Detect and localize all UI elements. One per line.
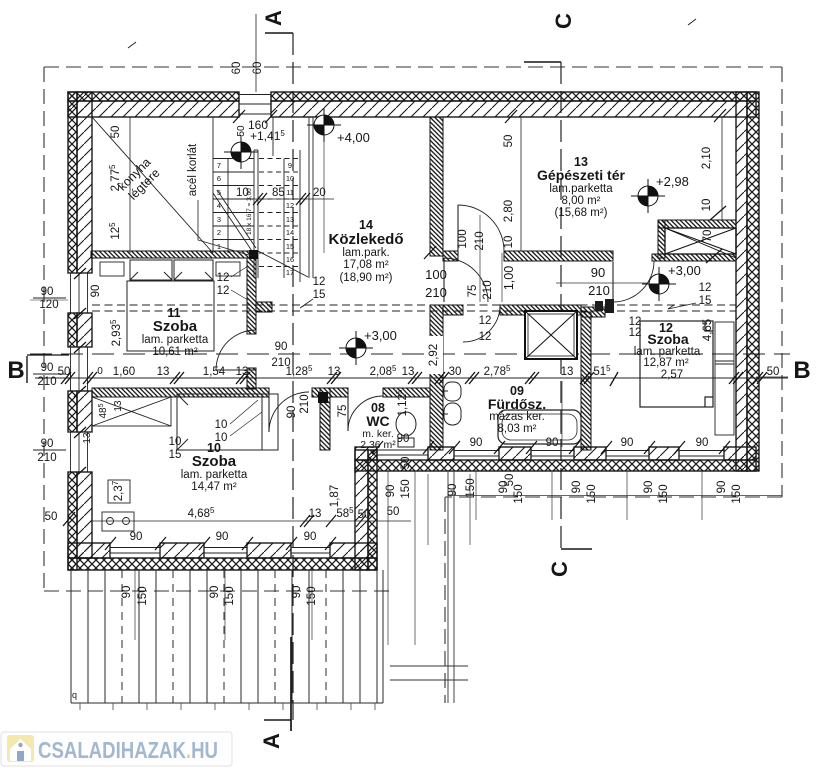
svg-text:2,92: 2,92	[428, 344, 440, 366]
south wall right section masonry piers	[355, 447, 756, 460]
svg-text:13: 13	[113, 400, 124, 412]
svg-text:1,87: 1,87	[329, 485, 341, 507]
svg-text:12: 12	[479, 331, 492, 343]
bath dim extension line	[561, 381, 563, 447]
chain labels	[58, 364, 780, 378]
ticks room13 right	[706, 206, 726, 263]
svg-text:12: 12	[217, 285, 230, 297]
svg-text:+4,00: +4,00	[337, 130, 370, 145]
svg-text:90: 90	[130, 531, 143, 543]
door szoba10 leaf	[268, 392, 270, 432]
extension line entry dim right	[414, 471, 416, 645]
label 12/15 east	[668, 282, 711, 309]
svg-text:+3,00: +3,00	[668, 263, 701, 278]
stair width dim line	[232, 198, 334, 200]
door bath arc	[463, 305, 500, 342]
svg-text:90: 90	[41, 438, 54, 450]
wall szoba12 north left piece	[581, 307, 605, 317]
label 12/15 center	[300, 276, 325, 308]
svg-text:50: 50	[387, 506, 400, 518]
svg-text:9: 9	[288, 161, 292, 170]
svg-text:210: 210	[37, 376, 56, 388]
svg-text:13: 13	[236, 366, 249, 378]
stair upper landing line	[272, 117, 274, 156]
labels 90 szoba10 windows	[130, 531, 317, 543]
tick top wall mid szoba13	[505, 110, 517, 123]
svg-text:2: 2	[217, 228, 221, 237]
nightstand szoba11 left	[100, 262, 124, 276]
svg-text:10: 10	[215, 419, 228, 431]
right margin line	[756, 376, 788, 378]
deck bottom edge	[71, 702, 383, 704]
svg-text:50: 50	[503, 135, 515, 148]
wall geptér south right run	[504, 251, 613, 261]
stair width ticks	[253, 193, 310, 205]
wall wc north right	[383, 388, 430, 397]
svg-text:Szoba: Szoba	[647, 331, 688, 347]
svg-text:210: 210	[299, 394, 311, 413]
svg-text:lam. parketta: lam. parketta	[142, 334, 209, 346]
section marker C bottom	[561, 548, 592, 550]
svg-text:CSALADIHAZAK.HU: CSALADIHAZAK.HU	[38, 737, 218, 763]
svg-text:90: 90	[275, 341, 288, 353]
svg-text:90: 90	[470, 437, 483, 449]
room 11 Szoba label	[142, 306, 209, 358]
svg-text:lam.park.: lam.park.	[342, 247, 389, 259]
svg-text:50: 50	[504, 474, 516, 487]
tick left bottom	[63, 512, 75, 526]
dim line room13 right	[721, 117, 723, 220]
bed szoba12	[640, 321, 713, 407]
svg-text:90: 90	[41, 286, 54, 298]
elevation marker +2,98	[631, 179, 665, 213]
top wall insulation right segment	[271, 92, 756, 101]
roof overhang boundary bottom right	[445, 496, 782, 498]
wall wc west	[320, 388, 330, 450]
wardrobe szoba10	[92, 397, 171, 426]
svg-text:15: 15	[286, 242, 294, 251]
roof overhang boundary right	[781, 67, 783, 497]
svg-text:13: 13	[328, 366, 341, 378]
label 12/12 szoba12	[629, 316, 642, 339]
svg-text:90: 90	[90, 285, 102, 298]
svg-text:50: 50	[110, 126, 122, 139]
svg-text:10,61 m²: 10,61 m²	[152, 346, 198, 358]
svg-text:C: C	[551, 13, 576, 29]
svg-text:13: 13	[286, 215, 294, 224]
door corridor-east leaf	[443, 258, 445, 302]
svg-text:150: 150	[400, 479, 412, 498]
wall corridor/bath lower	[430, 305, 443, 450]
svg-text:13: 13	[309, 508, 322, 520]
svg-text:+2,98: +2,98	[656, 174, 689, 189]
svg-text:100: 100	[425, 267, 447, 282]
left wall pier 3	[68, 391, 92, 432]
svg-text:12: 12	[629, 327, 642, 339]
stair newel post	[249, 250, 258, 259]
svg-text:60: 60	[252, 62, 264, 75]
wall wc north left	[330, 388, 348, 397]
kitchen void diagonal	[92, 117, 213, 253]
svg-text:+3,00: +3,00	[364, 328, 397, 343]
svg-text:(18,90 m²): (18,90 m²)	[339, 272, 392, 284]
door szoba12 arc	[613, 261, 654, 302]
svg-text:210: 210	[37, 452, 56, 464]
elevation marker +4,00	[307, 108, 341, 142]
svg-text:85: 85	[272, 187, 285, 199]
room 14 Közlekedő label	[328, 218, 403, 284]
svg-text:Szoba: Szoba	[153, 318, 198, 335]
section marker A top	[265, 32, 293, 34]
label 12/12 szoba11 wall	[217, 266, 248, 300]
svg-text:14: 14	[286, 228, 294, 237]
chain line	[35, 377, 788, 379]
door geptér arc	[458, 205, 504, 251]
svg-text:2,36 m²: 2,36 m²	[360, 439, 396, 451]
extension line right section dim 2	[551, 471, 553, 520]
svg-text:12: 12	[286, 201, 294, 210]
svg-text:B: B	[7, 357, 24, 384]
svg-text:(15,68 m²): (15,68 m²)	[554, 207, 607, 219]
svg-text:13: 13	[82, 432, 93, 444]
svg-text:50: 50	[767, 366, 780, 378]
svg-text:17,08 m²: 17,08 m²	[343, 259, 389, 271]
door wc leaf	[347, 397, 349, 431]
svg-text:4,65: 4,65	[702, 319, 714, 341]
section marker A bottom	[264, 719, 291, 721]
steel railing leader	[198, 200, 252, 256]
stair number column line right	[283, 159, 285, 279]
roof line pair upper	[92, 304, 736, 306]
wall geptér south left stub	[443, 251, 458, 261]
svg-text:6: 6	[217, 174, 221, 183]
svg-text:13: 13	[402, 366, 415, 378]
svg-text:210: 210	[425, 285, 447, 300]
svg-text:50: 50	[58, 366, 71, 378]
desk szoba10	[108, 480, 130, 503]
ticks south wall right section	[372, 441, 730, 454]
svg-text:50: 50	[45, 511, 58, 523]
svg-text:150: 150	[658, 484, 670, 503]
tick geptér wall corner	[424, 246, 436, 259]
dim line above opening	[255, 14, 257, 92]
label 2,92 rotated on wall	[428, 336, 443, 374]
door corridor-east arc	[444, 258, 488, 302]
svg-text:12: 12	[217, 272, 230, 284]
label 90/210 door left	[37, 362, 56, 388]
svg-text:10: 10	[215, 432, 228, 444]
door szoba12 leaf	[612, 262, 614, 303]
marker B left	[26, 356, 28, 383]
svg-text:0: 0	[97, 366, 103, 377]
chain ticks	[61, 372, 767, 386]
door wc arc	[348, 396, 383, 431]
svg-text:20: 20	[313, 187, 326, 199]
extension line walkway dim a	[427, 474, 429, 545]
east wall of living section	[355, 450, 377, 570]
svg-text:5: 5	[217, 188, 221, 197]
ticks 4,68 line	[300, 515, 366, 527]
left wall window 1 sill lines	[68, 273, 92, 313]
svg-text:210: 210	[482, 280, 494, 299]
svg-text:50: 50	[236, 125, 247, 137]
svg-text:A: A	[259, 733, 284, 749]
svg-text:Gépészeti tér: Gépészeti tér	[537, 167, 625, 183]
top wall masonry left segment	[68, 101, 239, 117]
svg-text:Közlekedő: Közlekedő	[328, 231, 403, 248]
svg-text:150: 150	[586, 484, 598, 503]
svg-text:13: 13	[157, 366, 170, 378]
wall corridor/geptér upper	[430, 117, 443, 256]
stair treads left flight	[213, 158, 254, 160]
wardrobe szoba12	[715, 322, 734, 435]
wall bath north left piece	[443, 305, 463, 315]
corner tick top left	[128, 42, 136, 48]
stairwell east double line	[308, 117, 310, 278]
walkway east double line	[447, 470, 449, 703]
left wall window 2 sill lines	[68, 347, 92, 391]
door bath extension line left	[479, 215, 481, 302]
svg-text:12: 12	[699, 282, 712, 294]
door bath extension line right	[501, 253, 503, 302]
tick right wall top	[714, 109, 726, 122]
svg-text:90: 90	[216, 531, 229, 543]
room 10 Szoba label	[181, 441, 248, 493]
wall bath north run	[500, 305, 581, 315]
bottom-left wall masonry strip	[68, 543, 377, 558]
label 90/210 vestibule	[588, 265, 610, 298]
svg-text:120: 120	[39, 299, 58, 311]
svg-text:50: 50	[400, 457, 412, 470]
wall szoba11 east lower	[247, 368, 256, 389]
right wall insulation	[747, 92, 759, 471]
section line A vertical	[292, 33, 294, 720]
wall below shaft box	[652, 254, 736, 261]
room 09 Fürdősz label	[488, 384, 546, 435]
svg-text:Fürdősz.: Fürdősz.	[488, 396, 546, 412]
elevation marker +3,00 hall	[339, 331, 373, 365]
stair width labels 10 85 20	[236, 187, 326, 199]
extension line deck dim 1	[134, 570, 136, 640]
bottom-left wall window sills	[110, 543, 330, 558]
stair railing double line	[253, 150, 255, 278]
room 08 WC label	[360, 401, 396, 451]
roof line pair lower	[92, 310, 736, 312]
svg-text:90: 90	[447, 484, 459, 497]
svg-text:10: 10	[503, 236, 515, 249]
svg-text:160: 160	[248, 118, 268, 132]
label 10/15 bed lower	[169, 436, 182, 461]
elevation marker +1,41	[224, 135, 258, 169]
ticks south wall left section	[105, 537, 336, 550]
section line B horizontal	[30, 353, 790, 355]
svg-text:50: 50	[358, 509, 371, 521]
svg-text:30: 30	[449, 366, 462, 378]
svg-text:10: 10	[169, 436, 182, 448]
svg-text:C: C	[547, 561, 572, 577]
svg-text:7: 7	[217, 161, 221, 170]
stair break line right flight	[258, 251, 308, 277]
svg-text:90: 90	[546, 437, 559, 449]
roof overhang boundary top	[44, 66, 782, 68]
stair tread numbers left	[217, 161, 221, 251]
roof overhang boundary entry vertical	[444, 497, 446, 703]
door geptér leaf	[457, 205, 459, 251]
tick top wall opening right	[265, 110, 277, 123]
door szoba11 leaf	[216, 369, 256, 371]
svg-text:75: 75	[467, 285, 479, 298]
watermark icon	[7, 735, 34, 762]
svg-text:lam.parketta: lam.parketta	[549, 183, 613, 195]
svg-text:3: 3	[217, 215, 221, 224]
svg-text:90: 90	[286, 406, 298, 419]
svg-text:60: 60	[231, 62, 243, 75]
kitchen dim line	[129, 117, 131, 253]
svg-text:12,87 m²: 12,87 m²	[643, 357, 689, 369]
left wall pier 4	[68, 472, 92, 570]
ticks left wall windows	[74, 268, 86, 478]
svg-text:90: 90	[304, 531, 317, 543]
svg-text:Szoba: Szoba	[192, 453, 237, 470]
svg-text:8,00 m²: 8,00 m²	[562, 195, 601, 207]
leader line window1	[30, 299, 68, 301]
wall bath north left stub	[256, 302, 272, 312]
bed szoba11	[127, 260, 214, 351]
extension line deck dim 2	[224, 570, 226, 640]
svg-text:11: 11	[286, 188, 294, 197]
room 13 Gépészeti tér label	[537, 155, 625, 219]
kitchen void label	[115, 155, 163, 203]
washbasin bath lower	[444, 403, 461, 425]
svg-text:acél korlát: acél korlát	[187, 143, 199, 196]
extension line entry dim left	[387, 471, 389, 645]
svg-text:70: 70	[702, 230, 714, 243]
bathtub	[498, 410, 581, 444]
svg-text:17: 17	[286, 268, 294, 277]
svg-text:90: 90	[643, 481, 655, 494]
svg-text:15: 15	[313, 289, 326, 301]
stair tread numbers right	[286, 161, 294, 277]
svg-text:lam. parketta: lam. parketta	[181, 469, 248, 481]
svg-text:1,54: 1,54	[203, 366, 226, 378]
label 90/210 window3	[37, 438, 56, 464]
roof overhang boundary left	[43, 67, 45, 591]
svg-text:150: 150	[465, 478, 477, 497]
svg-text:90: 90	[385, 485, 397, 498]
svg-text:150: 150	[731, 484, 743, 503]
svg-text:150: 150	[137, 586, 149, 605]
deck plank lines	[70, 570, 72, 703]
entry door threshold lines	[377, 450, 428, 455]
svg-text:90: 90	[571, 481, 583, 494]
svg-text:90: 90	[397, 433, 410, 445]
svg-text:14: 14	[359, 218, 373, 232]
svg-text:13: 13	[561, 366, 574, 378]
toilet wc	[396, 412, 416, 447]
south wall right section insulation strip	[355, 460, 756, 471]
svg-text:12: 12	[479, 315, 492, 327]
washing machine szoba10	[102, 512, 134, 531]
left wall window 3 sill lines	[68, 432, 92, 472]
stairwell west line	[212, 117, 214, 253]
svg-text:210: 210	[271, 357, 290, 369]
svg-text:B: B	[793, 357, 810, 384]
stair break line left flight	[213, 193, 252, 251]
svg-text:mázas ker.: mázas ker.	[489, 411, 545, 423]
extension line deck dim 3	[311, 570, 313, 640]
svg-text:90: 90	[121, 586, 133, 599]
svg-text:1,00: 1,00	[502, 266, 516, 290]
room 12 Szoba label	[634, 321, 701, 381]
section marker C top	[524, 61, 561, 63]
watermark bar	[1, 732, 232, 766]
tick top wall opening left	[233, 110, 245, 123]
dim extension from +4,00	[323, 135, 325, 253]
door szoba12 dim line	[556, 282, 648, 284]
dim line room13 left	[520, 117, 522, 251]
door post szoba12 right	[605, 299, 614, 313]
label 12/12 bath east	[479, 315, 492, 343]
label 90/210 hall door	[271, 341, 290, 369]
svg-text:10: 10	[701, 199, 713, 212]
door szoba11 arc	[216, 330, 256, 370]
shaft box in geptér alcove	[658, 220, 736, 258]
left wall pier 1	[68, 92, 92, 273]
bed szoba10	[177, 394, 278, 450]
top wall insulation left segment	[68, 92, 239, 101]
svg-text:A: A	[261, 10, 286, 26]
svg-text:90: 90	[591, 265, 605, 280]
svg-text:8,03 m²: 8,03 m²	[498, 423, 537, 435]
extension line right section dim 1	[475, 471, 477, 520]
svg-text:210: 210	[588, 283, 610, 298]
svg-text:90: 90	[291, 586, 303, 599]
svg-text:90: 90	[621, 437, 634, 449]
svg-text:15: 15	[169, 449, 182, 461]
svg-text:4: 4	[217, 201, 221, 210]
wc door post left	[318, 392, 328, 403]
svg-text:75: 75	[337, 405, 349, 418]
extension line right section dim 4	[701, 471, 703, 520]
svg-text:90: 90	[716, 481, 728, 494]
roof overhang boundary bottom left	[44, 590, 390, 592]
left wall pier 2	[68, 313, 92, 347]
extension line walkway dim b	[469, 474, 471, 545]
label 100/210 corridor east	[425, 267, 447, 300]
svg-text:WC: WC	[366, 413, 389, 429]
top wall opening lintel lines	[239, 95, 271, 115]
wall kitchen void / szoba11	[91, 251, 256, 258]
svg-text:2,57: 2,57	[661, 369, 683, 381]
extension line right section dim 3	[626, 471, 628, 520]
svg-text:16: 16	[286, 255, 294, 264]
section line C vertical	[560, 62, 562, 549]
svg-text:10: 10	[286, 174, 294, 183]
szoba10 dim line 4,68	[92, 520, 411, 522]
svg-text:15: 15	[699, 295, 712, 307]
label 90/120 window	[39, 286, 58, 311]
svg-text:2,80: 2,80	[503, 200, 515, 222]
door szoba10 arc	[269, 392, 309, 432]
svg-text:100: 100	[457, 229, 469, 248]
svg-text:2,10: 2,10	[701, 147, 713, 169]
bottom-left wall insulation strip	[68, 558, 377, 570]
svg-text:90: 90	[696, 437, 709, 449]
wall szoba11 east upper	[247, 258, 256, 334]
labels 90 right windows	[470, 437, 709, 449]
svg-text:150: 150	[224, 586, 236, 605]
right wall masonry	[736, 92, 747, 471]
